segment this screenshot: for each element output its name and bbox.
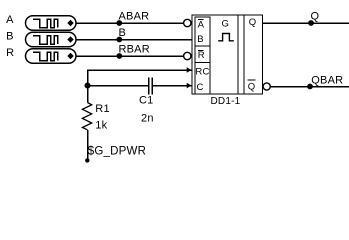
stimulus source DSTM R body xyxy=(26,49,77,64)
chip DD1-1 outline xyxy=(192,15,263,94)
chip divider G column xyxy=(237,15,239,94)
wire R row xyxy=(77,55,184,57)
chip Q column frame xyxy=(243,15,245,94)
svg-text:B: B xyxy=(119,27,127,39)
svg-text:1k: 1k xyxy=(95,120,107,132)
ground node dot xyxy=(85,158,89,162)
stimulus B waveform xyxy=(33,36,58,44)
svg-text:QBAR: QBAR xyxy=(311,74,343,86)
junction dot ABAR xyxy=(116,20,122,26)
arrow into C pin xyxy=(187,83,192,88)
svg-text:G: G xyxy=(222,19,230,30)
svg-text:RBAR: RBAR xyxy=(119,43,150,55)
wire C net right xyxy=(153,85,192,87)
stimulus R waveform xyxy=(33,52,58,60)
inversion bubble on R input xyxy=(184,52,191,59)
stimulus source DSTM B body xyxy=(26,32,77,47)
inversion bubble on A input xyxy=(184,19,191,26)
stimulus R output terminal dot xyxy=(67,53,73,59)
svg-text:C: C xyxy=(197,82,204,93)
wire B row xyxy=(77,39,192,41)
wire Q output xyxy=(263,22,349,24)
capacitor C1 plates xyxy=(148,77,150,94)
chip pin-label column frame xyxy=(195,17,210,94)
stimulus B output terminal dot xyxy=(67,36,73,42)
svg-text:R: R xyxy=(198,50,205,61)
svg-text:$G_DPWR: $G_DPWR xyxy=(88,145,146,157)
svg-text:2n: 2n xyxy=(141,113,154,125)
G pulse glyph xyxy=(218,34,234,41)
junction dot B xyxy=(116,37,122,43)
inversion bubble on QBAR output xyxy=(263,83,270,90)
svg-text:A: A xyxy=(198,19,205,30)
pin column divider 2 xyxy=(195,62,210,64)
svg-text:RC: RC xyxy=(195,67,209,78)
stimulus source DSTM A body xyxy=(26,16,77,31)
wire resistor to ground xyxy=(87,130,89,161)
svg-text:A: A xyxy=(6,14,14,26)
svg-text:B: B xyxy=(6,31,14,43)
svg-text:R1: R1 xyxy=(95,103,109,115)
wire QBAR output xyxy=(270,86,349,88)
pin column divider 1 xyxy=(195,45,210,47)
svg-text:B: B xyxy=(197,34,204,45)
junction dot Q xyxy=(308,20,314,26)
stimulus A output terminal dot xyxy=(67,20,73,26)
resistor R1 zigzag xyxy=(82,103,91,130)
wire A row xyxy=(77,22,184,24)
junction dot RC/C tee xyxy=(85,83,91,89)
wire RC net xyxy=(88,70,192,102)
wire C net left xyxy=(88,85,149,87)
svg-text:C1: C1 xyxy=(139,95,153,107)
junction dot RBAR xyxy=(116,53,122,59)
junction dot QBAR xyxy=(307,84,313,90)
svg-text:Q: Q xyxy=(311,11,320,23)
svg-text:ABAR: ABAR xyxy=(119,10,150,22)
svg-text:R: R xyxy=(6,47,14,59)
svg-text:DD1-1: DD1-1 xyxy=(211,96,241,107)
svg-text:Q: Q xyxy=(248,82,256,93)
arrow into RC pin xyxy=(187,67,192,72)
stimulus A waveform xyxy=(33,19,58,27)
svg-text:Q: Q xyxy=(249,17,257,28)
